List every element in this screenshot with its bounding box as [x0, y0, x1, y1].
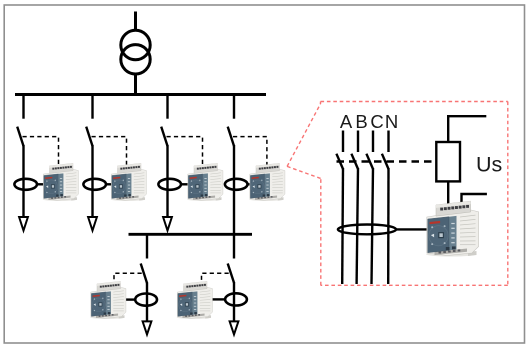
callout: red dashed detail box [321, 102, 508, 286]
CT 6 [225, 293, 247, 305]
dashed control wire: breaker 1 to meter 1 [23, 137, 59, 165]
svg-text:B: B [355, 111, 367, 132]
CT 3 [158, 179, 181, 190]
dashed control wire: breaker 5 to meter 5 [114, 273, 142, 282]
meter/relay device 4 [249, 163, 285, 201]
wire: CT 1 to meter 1 [37, 183, 45, 185]
CT 4 [225, 179, 248, 190]
breaker pole C [366, 154, 373, 169]
meter/relay device 5 [90, 281, 126, 319]
wire: CT detail to meter [396, 228, 429, 230]
wire: transformer to main busbar [134, 74, 137, 96]
transformer T1 [121, 30, 150, 74]
wire: feeder 5 lower [146, 282, 148, 321]
callout wedge: upper leader [287, 104, 320, 167]
dashed control wire: breaker 4 to meter 4 [233, 137, 267, 165]
breaker Q3 [161, 127, 167, 146]
CT 2 [83, 179, 106, 190]
wire: incoming supply drop [134, 12, 137, 32]
wire: Us rect bottom to meter [447, 181, 449, 205]
breaker Q6 [228, 264, 234, 283]
busbar: sub [129, 233, 253, 236]
auxiliary supply element Us [436, 142, 460, 181]
breaker pole A [336, 154, 343, 169]
wire: feeder 3 tap [166, 93, 168, 119]
load arrow 2 [88, 217, 97, 231]
phase wire C lower [372, 168, 374, 284]
phase wire A upper [342, 131, 344, 153]
breaker Q1 [17, 127, 23, 146]
CT 1 [14, 179, 37, 190]
meter/relay device 1 [43, 163, 79, 201]
breaker Q4 [228, 127, 234, 146]
wire: feeder 6 tap [233, 233, 235, 259]
svg-text:Us: Us [476, 153, 502, 177]
breaker pole B [351, 154, 358, 169]
dashed control wire: breaker 2 to meter 2 [92, 137, 127, 165]
wire: CT 4 to meter 4 [248, 183, 253, 185]
load arrow 6 [230, 321, 239, 334]
callout wedge: lower leader [287, 166, 321, 178]
wire: Us rect top to aux supply [448, 116, 486, 142]
neutral wire N lower [387, 168, 390, 284]
breaker Q5 [141, 264, 147, 284]
svg-text:A: A [340, 111, 353, 132]
wire: CT 5 to meter 5 [126, 298, 136, 300]
svg-text:C: C [370, 111, 383, 132]
dashed control wire: breaker 3 to meter 3 [167, 137, 203, 165]
phase wire A lower [341, 168, 344, 284]
wire: CT 3 to meter 3 [181, 183, 190, 185]
wire: feeder 1 tap [22, 93, 24, 119]
load arrow 3 [163, 217, 172, 231]
CT 5 [135, 294, 157, 306]
load arrow 5 [143, 321, 152, 334]
meter/relay device 2 [111, 163, 147, 201]
load arrow 1 [19, 217, 28, 231]
dashed voltage tap wire to Us input [337, 160, 437, 163]
wire: feeder 3 lower [166, 145, 168, 218]
neutral wire N upper [387, 131, 389, 153]
wire: CT 2 to meter 2 [106, 183, 114, 185]
meter/relay device detail [426, 201, 479, 256]
phase wire B lower [357, 168, 358, 284]
breaker Q2 [86, 127, 92, 146]
wire: meter aux output stub [462, 194, 487, 205]
CT detail (through-core) [338, 225, 396, 235]
meter/relay device 6 [177, 281, 213, 319]
busbar: main [15, 93, 266, 96]
wire: feeder 4 to sub busbar [233, 145, 235, 236]
wire: CT 6 to meter 6 [213, 298, 226, 300]
wire: feeder 2 lower [91, 145, 93, 218]
phase wire C upper [372, 131, 374, 153]
meter/relay device 3 [187, 163, 223, 201]
svg-text:N: N [385, 111, 398, 132]
wire: feeder 4 tap [233, 93, 235, 119]
breaker pole N [382, 154, 389, 169]
wire: feeder 6 lower [233, 282, 235, 322]
phase wire B upper [357, 131, 359, 153]
dashed control wire: breaker 6 to meter 6 [202, 273, 229, 282]
wire: feeder 2 tap [91, 93, 93, 119]
wire: feeder 1 lower [22, 145, 24, 218]
wire: feeder 5 tap [146, 233, 148, 259]
